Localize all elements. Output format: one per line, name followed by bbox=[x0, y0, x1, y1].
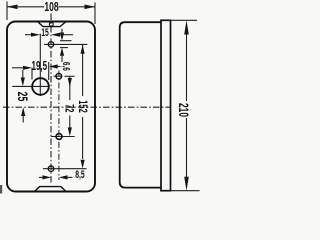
svg-text:8,5: 8,5 bbox=[75, 168, 84, 180]
svg-text:72: 72 bbox=[62, 104, 75, 113]
svg-text:152: 152 bbox=[75, 100, 88, 113]
svg-text:6,6: 6,6 bbox=[61, 62, 73, 71]
svg-text:108: 108 bbox=[44, 0, 58, 14]
svg-text:15: 15 bbox=[41, 26, 49, 38]
svg-text:19,5: 19,5 bbox=[31, 59, 47, 73]
svg-text:25: 25 bbox=[15, 92, 31, 102]
svg-text:210: 210 bbox=[176, 103, 190, 117]
